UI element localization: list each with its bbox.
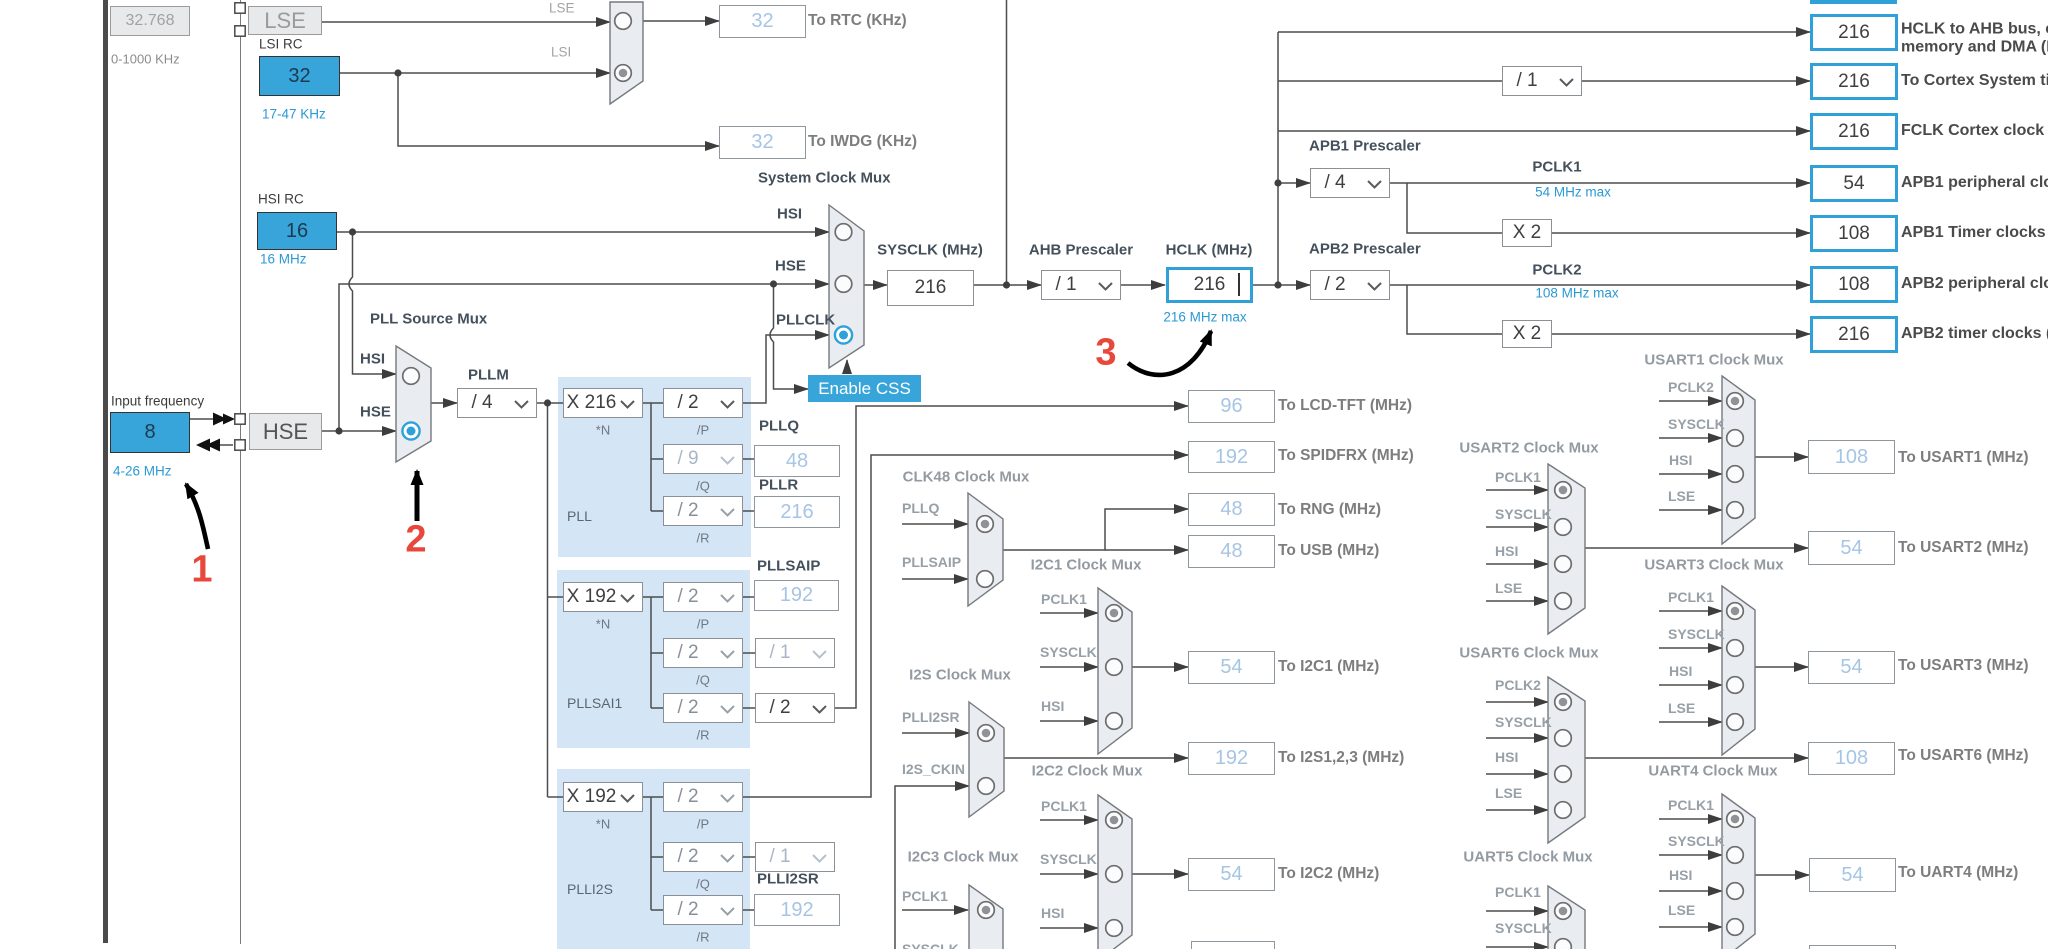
label PCLK2 stub 12 bbox=[1668, 379, 1714, 395]
wire PLLSAIP stub into CLK48 mux bbox=[902, 578, 968, 580]
wire HSE up to System Clock Mux bbox=[339, 284, 829, 431]
divider dropdown PLLSAIDIVQ /1 bbox=[755, 638, 835, 668]
wire PCLK1 stub into USART3 mux bbox=[1659, 610, 1722, 612]
divider dropdown PLLM /4 bbox=[457, 388, 537, 418]
label *N of PLL bbox=[596, 423, 610, 438]
label I2C3 Clock Mux bbox=[908, 849, 1019, 866]
wire USART2 mux to USART2 box bbox=[1585, 547, 1808, 549]
wire PLL rail to /Q bbox=[651, 458, 663, 460]
wire HCLK to AHB bus box bbox=[1278, 31, 1810, 33]
label To I2C2 (MHz) bbox=[1278, 865, 1379, 883]
label PLLSAIP bbox=[757, 558, 820, 575]
label I2C1 Clock Mux bbox=[1031, 557, 1142, 574]
divider dropdown Cortex /1 bbox=[1502, 66, 1582, 96]
op-amp mux UART5 Clock Mux bbox=[1548, 886, 1585, 949]
wire PLLI2S /P to SPDIFRX box bbox=[743, 455, 1188, 797]
wire LSE stub into USART1 mux bbox=[1659, 509, 1722, 511]
annotation arrow 2 (to PLL source mux HSE radio) bbox=[415, 471, 420, 521]
label SYSCLK stub 5 bbox=[1040, 644, 1097, 660]
wire PCLK2 stub into USART1 mux bbox=[1659, 400, 1722, 402]
radio HSE input (selected, blue) bbox=[402, 422, 419, 439]
radio LSE input (unselected) bbox=[615, 13, 632, 30]
radio HSI input of I2C1 bbox=[1106, 713, 1123, 730]
wire APB1 Prescaler to APB1 peripheral box bbox=[1390, 182, 1810, 184]
wire rail to PLLI2S X192 bbox=[548, 796, 564, 798]
node HSE pin lower bbox=[235, 440, 245, 450]
wire SYSCLK stub into USART3 mux bbox=[1659, 647, 1722, 649]
label PLLI2SR stub 2 bbox=[902, 709, 960, 725]
label PLLSAI1 bbox=[567, 695, 622, 711]
value box PLLI2SR 192 bbox=[754, 894, 840, 926]
label /P of PLLI2S bbox=[697, 817, 709, 832]
wire SYSCLK stub into USART1 mux bbox=[1659, 437, 1722, 439]
node LSI junction bbox=[394, 69, 401, 76]
label /Q of PLL bbox=[696, 479, 710, 494]
radio SYSCLK input of UART5 bbox=[1555, 939, 1572, 949]
node PLLM output junction bbox=[544, 399, 551, 406]
wire PLLI2S X192 to dividers bbox=[643, 796, 663, 798]
label /P of PLL bbox=[697, 423, 709, 438]
op-amp mux LSE/LSI (RTC clock mux) bbox=[610, 2, 643, 104]
label 108 MHz max bbox=[1535, 286, 1618, 301]
label *N of PLLSAI bbox=[596, 617, 610, 632]
wire HSI stub into USART3 mux bbox=[1659, 684, 1722, 686]
input frequency box 8 bbox=[110, 412, 190, 453]
value box To UART4 54 bbox=[1809, 858, 1896, 892]
wire PLLQ stub into CLK48 mux bbox=[902, 523, 968, 525]
label APB1 Timer clocks bbox=[1901, 224, 2048, 242]
wire PLLM divider to X216 multiplier bbox=[537, 402, 563, 404]
node LSE pin upper bbox=[235, 3, 245, 13]
radio SYSCLK input of UART4 bbox=[1727, 847, 1744, 864]
divider dropdown AHB Prescaler /1 bbox=[1041, 270, 1121, 300]
label PLLR bbox=[759, 477, 798, 494]
op-amp mux USART1 Clock Mux bbox=[1722, 376, 1755, 544]
radio PCLK1 input of USART3 (selected) bbox=[1727, 603, 1744, 620]
node LSE pin lower bbox=[235, 26, 245, 36]
node SYSCLK junction bbox=[1003, 281, 1010, 288]
wire HCLK to FCLK box bbox=[1278, 130, 1810, 132]
label SYSCLK stub 33 bbox=[1495, 920, 1552, 936]
value box To USB 48 bbox=[1188, 535, 1275, 568]
oscillator box LSE frequency 32.768 bbox=[110, 6, 190, 36]
node HSI junction bbox=[349, 228, 356, 235]
wire APB2 branch to X2 bbox=[1407, 285, 1502, 334]
wire X2 to APB2 timer box bbox=[1552, 333, 1810, 335]
label PCLK1 bbox=[1532, 159, 1581, 176]
label APB1 peripheral clocks bbox=[1901, 174, 2048, 192]
wire PLLI2S /R to PLLI2SR box bbox=[743, 909, 754, 911]
wire SYSCLK vertical riser bbox=[1006, 0, 1008, 285]
wire LSE stub into USART2 mux bbox=[1486, 600, 1548, 602]
wire input frequency to HSE (outgoing double arrow) bbox=[190, 413, 235, 426]
label PLLI2S bbox=[567, 881, 613, 897]
label SYSCLK stub 13 bbox=[1668, 416, 1725, 432]
wire CLK48 mux to USB box bbox=[1105, 549, 1188, 551]
wire HSI stub into USART2 mux bbox=[1486, 563, 1548, 565]
wire PLLSAI rail to /Q bbox=[651, 652, 663, 654]
wire PLLI2S rail to /Q bbox=[651, 856, 663, 858]
label HSI at PLL mux bbox=[360, 351, 385, 368]
op-amp mux System Clock Mux bbox=[829, 205, 864, 368]
divider dropdown PLLI2S /P bbox=[663, 782, 743, 812]
op-amp mux USART6 Clock Mux bbox=[1548, 677, 1585, 843]
wire PLLSAI /R to divider bbox=[743, 707, 755, 709]
label HSI at system mux bbox=[777, 206, 802, 223]
label To USB (MHz) bbox=[1278, 542, 1379, 560]
node HSE junction bbox=[335, 427, 342, 434]
wire SYSCLK stub into UART5 mux bbox=[1486, 946, 1548, 948]
label UART5 Clock Mux bbox=[1463, 849, 1592, 866]
label /R of PLLI2S bbox=[697, 930, 710, 945]
label /Q of PLLI2S bbox=[696, 877, 710, 892]
label To I2C1 (MHz) bbox=[1278, 658, 1379, 676]
label USART2 Clock Mux bbox=[1459, 440, 1598, 457]
wire SYSCLK box to AHB Prescaler bbox=[974, 284, 1041, 286]
multiplier dropdown PLLI2S N X192 bbox=[563, 782, 643, 812]
label USART3 Clock Mux bbox=[1644, 557, 1783, 574]
value box SYSCLK 216 bbox=[887, 270, 974, 306]
node HSE pin upper bbox=[235, 414, 245, 424]
wire LSE stub into USART3 mux bbox=[1659, 721, 1722, 723]
annotation number 1 bbox=[191, 549, 212, 592]
wire PCLK1 stub into I2C1 mux bbox=[1040, 612, 1098, 614]
radio PLLQ input (selected) bbox=[977, 516, 994, 533]
radio PCLK1 input of UART5 (selected) bbox=[1555, 903, 1572, 920]
multiplier dropdown PLL N X216 bbox=[563, 388, 643, 418]
radio LSE input of USART6 bbox=[1555, 802, 1572, 819]
wire I2S mux to I2S1,2,3 box bbox=[1004, 757, 1188, 759]
label To UART4 (MHz) bbox=[1898, 864, 2018, 882]
oscillator box LSI RC 32 bbox=[259, 56, 340, 96]
wire PCLK1 stub into I2C3 mux bbox=[902, 909, 968, 911]
wire SYSCLK stub into USART2 mux bbox=[1486, 526, 1548, 528]
label PCLK1 stub 7 bbox=[1041, 798, 1087, 814]
annotation number 3 bbox=[1095, 332, 1116, 375]
radio SYSCLK input of I2C2 bbox=[1106, 866, 1123, 883]
label I2S_CKIN stub 3 bbox=[902, 761, 965, 777]
label APB2 Prescaler bbox=[1309, 241, 1421, 258]
wire USART3 mux to USART3 box bbox=[1755, 666, 1808, 668]
wire HSE branch to Enable CSS (with hop) bbox=[770, 284, 808, 389]
value box HCLK to AHB 216 bbox=[1810, 14, 1898, 51]
radio PCLK1 input of I2C1 (selected) bbox=[1106, 605, 1123, 622]
radio HSI input (unselected) bbox=[403, 368, 420, 385]
label To SPIDFRX (MHz) bbox=[1278, 447, 1414, 465]
value box To USART6 108 bbox=[1808, 742, 1895, 775]
wire LSI branch to IWDG bbox=[398, 73, 719, 146]
divider dropdown PLLI2SDIVQ /1 bbox=[755, 842, 835, 872]
radio HSI input of UART4 bbox=[1727, 883, 1744, 900]
wire PCLK1 stub into USART2 mux bbox=[1486, 489, 1548, 491]
op-amp mux PLL Source Mux bbox=[396, 346, 431, 462]
label APB1 Prescaler bbox=[1309, 138, 1421, 155]
value box PLLSAIP 192 bbox=[754, 580, 839, 611]
label To USART3 (MHz) bbox=[1898, 657, 2029, 675]
label PLLI2SR bbox=[757, 871, 819, 888]
label 54 MHz max bbox=[1535, 185, 1611, 200]
divider dropdown APB1 Prescaler /4 bbox=[1310, 168, 1390, 198]
wire HSE to PLL Source Mux bbox=[322, 430, 396, 432]
text caret in HCLK box bbox=[1238, 273, 1240, 296]
op-amp mux USART3 Clock Mux bbox=[1722, 586, 1755, 755]
label LSE at mux bbox=[549, 1, 575, 16]
radio HSI input of USART6 bbox=[1555, 766, 1572, 783]
annotation number 2 bbox=[405, 519, 426, 562]
label HSE at system mux bbox=[775, 258, 806, 275]
multiplier X2 APB2 bbox=[1502, 320, 1552, 348]
label AHB Prescaler bbox=[1029, 242, 1133, 259]
value box PLLQ 48 bbox=[754, 445, 840, 477]
radio HSI input of USART3 bbox=[1727, 677, 1744, 694]
label I2S Clock Mux bbox=[909, 667, 1011, 684]
wire SYSCLK stub into USART6 mux bbox=[1486, 737, 1548, 739]
wire X216 to PLL dividers bbox=[643, 402, 663, 404]
label PCLK2 stub 24 bbox=[1495, 677, 1541, 693]
value box Cortex timer 216 bbox=[1810, 63, 1898, 100]
button Enable CSS bbox=[808, 375, 921, 402]
divider dropdown PLLI2S /R bbox=[663, 895, 743, 925]
wire PLLI2S /Q to divider bbox=[743, 856, 755, 858]
wire APB1 branch to X2 bbox=[1407, 183, 1502, 233]
value box To USART3 54 bbox=[1808, 651, 1895, 684]
label HSI stub 6 bbox=[1041, 698, 1064, 714]
label *N of PLLI2S bbox=[596, 817, 610, 832]
wire PLLSAI divider rail bbox=[650, 597, 652, 708]
radio HSI input of System Clock Mux bbox=[835, 224, 852, 241]
wire LSE/LSI mux to RTC box bbox=[643, 20, 719, 22]
wire PLLSAI X192 to dividers bbox=[643, 596, 663, 598]
label PLL Source Mux bbox=[370, 311, 487, 328]
label To IWDG bbox=[808, 133, 917, 151]
op-amp mux I2C2 Clock Mux bbox=[1098, 795, 1132, 949]
wire PLLI2S rail to /R bbox=[651, 909, 663, 911]
label LSE stub 27 bbox=[1495, 785, 1522, 801]
label PCLK1 stub 32 bbox=[1495, 884, 1541, 900]
node HCLK junction bbox=[1274, 281, 1281, 288]
label CLK48 Clock Mux bbox=[903, 469, 1030, 486]
label HSI stub 26 bbox=[1495, 749, 1518, 765]
label HSE at PLL mux bbox=[360, 404, 391, 421]
divider dropdown PLL /R bbox=[663, 496, 743, 526]
label SYSCLK stub 21 bbox=[1668, 626, 1725, 642]
label SYSCLK stub 29 bbox=[1668, 833, 1725, 849]
label PCLK1 stub 28 bbox=[1668, 797, 1714, 813]
label HSI RC bbox=[258, 192, 304, 207]
label APB2 timer clocks bbox=[1901, 325, 2048, 343]
value box To RNG 48 bbox=[1188, 493, 1275, 526]
label SYSCLK stub 11 bbox=[902, 941, 959, 949]
label To USART2 (MHz) bbox=[1898, 539, 2029, 557]
divider dropdown PLL /P bbox=[663, 388, 743, 418]
radio LSE input of USART1 bbox=[1727, 502, 1744, 519]
wire PLL rail to /R bbox=[651, 510, 663, 512]
label 17-47 KHz bbox=[262, 107, 326, 122]
op-amp mux UART4 Clock Mux bbox=[1722, 794, 1755, 949]
wire PLLSAI /P to PLLSAIP box bbox=[743, 596, 754, 598]
label FCLK Cortex clock bbox=[1901, 122, 2048, 140]
label /Q of PLLSAI bbox=[696, 673, 710, 688]
radio PCLK2 input of USART1 (selected) bbox=[1727, 393, 1744, 410]
value box To RTC 32 bbox=[719, 5, 806, 38]
label SYSCLK stub 8 bbox=[1040, 851, 1097, 867]
wire HSI stub into UART4 mux bbox=[1659, 890, 1722, 892]
value box partial top blue strip bbox=[1810, 0, 1897, 4]
label /R of PLL bbox=[697, 531, 710, 546]
wire HSI stub into I2C2 mux bbox=[1040, 927, 1098, 929]
label System Clock Mux bbox=[758, 170, 891, 187]
label PCLK1 stub 20 bbox=[1668, 589, 1714, 605]
radio LSE input of USART3 bbox=[1727, 714, 1744, 731]
value box To I2C2 54 bbox=[1188, 858, 1275, 891]
wire HSI stub into USART6 mux bbox=[1486, 773, 1548, 775]
wire PCLK1 stub into I2C2 mux bbox=[1040, 819, 1098, 821]
wire PLLI2S divider rail bbox=[650, 797, 652, 910]
annotation arrow 1 (to input frequency box) bbox=[186, 484, 208, 549]
label SYSCLK (MHz) bbox=[877, 242, 983, 259]
label USART1 Clock Mux bbox=[1644, 352, 1783, 369]
wire AHB Prescaler to HCLK box bbox=[1121, 284, 1165, 286]
divider dropdown PLLSAIDIVR /2 bbox=[755, 693, 835, 723]
wire LSE stub into UART4 mux bbox=[1659, 926, 1722, 928]
value box HCLK 216 (focused) bbox=[1166, 267, 1253, 303]
label LSE stub 19 bbox=[1495, 580, 1522, 596]
label HSI stub 14 bbox=[1669, 452, 1692, 468]
label 4-26 MHz bbox=[113, 464, 172, 479]
wire HSI stub into I2C1 mux bbox=[1040, 720, 1098, 722]
wire PCLK1 stub into UART5 mux bbox=[1486, 910, 1548, 912]
wire LSI RC to LSE/LSI mux bbox=[340, 72, 610, 74]
wire LSE to LSE/LSI mux bbox=[322, 21, 610, 23]
label HCLK (MHz) bbox=[1166, 242, 1253, 259]
label PLL bbox=[567, 508, 592, 524]
label To RNG (MHz) bbox=[1278, 501, 1381, 519]
multiplier X2 APB1 bbox=[1502, 219, 1552, 247]
label To Cortex System timer bbox=[1901, 72, 2048, 90]
divider dropdown PLLSAI /P bbox=[663, 582, 743, 612]
label HSI stub 30 bbox=[1669, 867, 1692, 883]
divider dropdown PLLSAI /Q bbox=[663, 638, 743, 668]
radio PCLK2 input of USART6 (selected) bbox=[1555, 694, 1572, 711]
wire SYSCLK stub into UART4 mux bbox=[1659, 854, 1722, 856]
label PLLQ bbox=[759, 418, 799, 435]
label Input frequency bbox=[111, 394, 204, 409]
value box To USART2 54 bbox=[1808, 531, 1895, 565]
op-amp mux I2C1 Clock Mux bbox=[1098, 588, 1132, 754]
wire HSI RC to System Clock Mux bbox=[337, 231, 829, 233]
radio HSI input of USART2 bbox=[1555, 556, 1572, 573]
value box To I2C1 54 bbox=[1188, 651, 1275, 684]
wire rail to PLLSAI X192 bbox=[548, 596, 564, 598]
wire HCLK to APB1 Prescaler bbox=[1278, 182, 1310, 184]
wire PLL /Q to PLLQ box bbox=[743, 458, 754, 460]
radio PLLCLK input of System Clock Mux (selected, blue) bbox=[835, 326, 852, 343]
wire Enable CSS up-arrow into System Clock Mux bbox=[846, 360, 848, 374]
wire I2C2 mux to I2C2 box bbox=[1132, 873, 1188, 875]
radio SYSCLK input of USART2 bbox=[1555, 519, 1572, 536]
value box partial bottom right bbox=[1809, 945, 1896, 949]
radio LSE input of UART4 bbox=[1727, 919, 1744, 936]
oscillator box HSE bbox=[249, 413, 322, 450]
oscillator box LSE bbox=[248, 6, 322, 35]
label LSE stub 31 bbox=[1668, 902, 1695, 918]
wire UART4 mux to UART4 box bbox=[1755, 874, 1809, 876]
label UART4 Clock Mux bbox=[1648, 763, 1777, 780]
multiplier dropdown PLLSAI N X192 bbox=[563, 582, 643, 612]
wire HSE to input frequency (returning double arrow) bbox=[196, 439, 233, 452]
wire PLL Source Mux to PLLM divider bbox=[431, 402, 457, 404]
wire PCLK2 stub into USART6 mux bbox=[1486, 701, 1548, 703]
value box To USART1 108 bbox=[1808, 440, 1895, 474]
value box APB2 peripheral 108 bbox=[1810, 266, 1898, 303]
label LSI at mux bbox=[551, 45, 571, 60]
label 216 MHz max bbox=[1163, 310, 1246, 325]
value box APB2 timer 216 bbox=[1810, 316, 1898, 353]
label HCLK to AHB bus core memory and DMA bbox=[1901, 21, 2048, 56]
label LSE stub 15 bbox=[1668, 488, 1695, 504]
value box partial bottom I2C4 bbox=[1191, 941, 1275, 949]
wire PLLI2SR stub into I2S mux bbox=[902, 732, 969, 734]
label PCLK1 stub 10 bbox=[902, 888, 948, 904]
wire HCLK box to APB2 Prescaler bbox=[1253, 284, 1310, 286]
wire SYSCLK stub into I2C1 mux bbox=[1040, 666, 1098, 668]
annotation arrow 3 (to HCLK box) bbox=[1128, 331, 1211, 375]
label I2C2 Clock Mux bbox=[1032, 763, 1143, 780]
label 16 MHz bbox=[260, 252, 307, 267]
label To RTC bbox=[808, 12, 907, 30]
wire LSE stub into USART6 mux bbox=[1486, 809, 1548, 811]
radio PCLK1 input of I2C2 (selected) bbox=[1106, 812, 1123, 829]
wire PLLSAI rail to /R bbox=[651, 707, 663, 709]
label APB2 peripheral clocks bbox=[1901, 275, 2048, 293]
value box To LCD-TFT 96 bbox=[1188, 390, 1275, 423]
label HSI stub 18 bbox=[1495, 543, 1518, 559]
oscillator box HSI RC 16 bbox=[257, 212, 337, 250]
PLL block background panel bbox=[558, 377, 751, 557]
label PLLM bbox=[468, 367, 509, 384]
wire HSI stub into USART1 mux bbox=[1659, 473, 1722, 475]
label /P of PLLSAI bbox=[697, 617, 709, 632]
radio SYSCLK input of USART1 bbox=[1727, 430, 1744, 447]
label To I2S1,2,3 (MHz) bbox=[1278, 749, 1404, 767]
wire SYSCLK stub into I2C2 mux bbox=[1040, 873, 1098, 875]
divider dropdown APB2 Prescaler /2 bbox=[1310, 270, 1390, 300]
wire APB2 Prescaler to APB2 peripheral box bbox=[1390, 284, 1810, 286]
label HSI stub 22 bbox=[1669, 663, 1692, 679]
label 0-1000 KHz bbox=[111, 52, 180, 67]
value box To SPDIFRX 192 bbox=[1188, 441, 1275, 473]
radio PLLSAIP input (unselected) bbox=[977, 571, 994, 588]
wire PLLSAI /Q to divider bbox=[743, 652, 755, 654]
wire PLLM rail to PLLSAI and PLLI2S bbox=[547, 403, 549, 797]
radio SYSCLK input of USART3 bbox=[1727, 640, 1744, 657]
label LSI RC bbox=[259, 37, 303, 52]
divider dropdown PLLSAI /R bbox=[663, 693, 743, 723]
wire System Clock Mux to SYSCLK box bbox=[864, 284, 887, 286]
label PLLQ stub 0 bbox=[902, 500, 939, 516]
radio LSE input of USART2 bbox=[1555, 593, 1572, 610]
value box APB1 peripheral 54 bbox=[1810, 165, 1898, 202]
node HSE-CSS junction bbox=[770, 280, 777, 287]
radio I2S_CKIN input (unselected) bbox=[978, 778, 995, 795]
value box To I2S 192 bbox=[1188, 742, 1275, 775]
label PCLK2 bbox=[1532, 262, 1581, 279]
op-amp mux USART2 Clock Mux bbox=[1548, 464, 1585, 634]
radio PCLK1 input of USART2 (selected) bbox=[1555, 482, 1572, 499]
radio SYSCLK input of I2C1 bbox=[1106, 659, 1123, 676]
wire canvas left border bbox=[240, 0, 241, 944]
wire Cortex divider to Cortex timer box bbox=[1582, 80, 1810, 82]
